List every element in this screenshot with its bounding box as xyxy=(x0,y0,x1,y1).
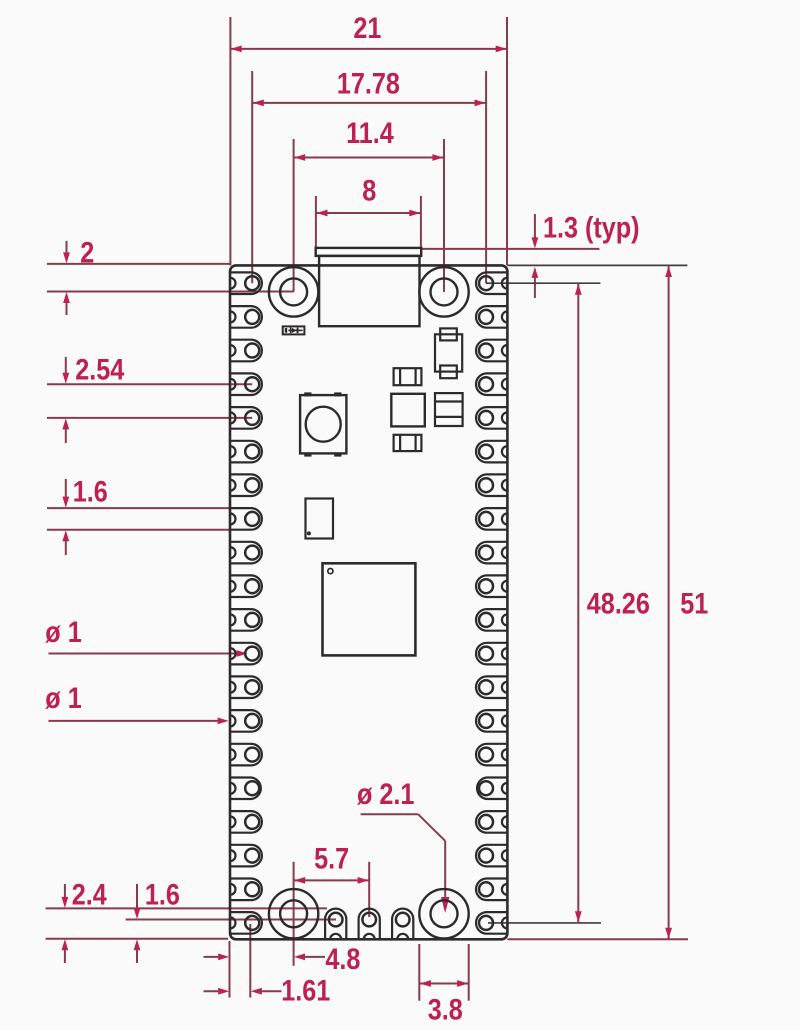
svg-text:1.6: 1.6 xyxy=(145,877,180,911)
svg-text:ø 1: ø 1 xyxy=(45,681,81,715)
svg-text:1.61: 1.61 xyxy=(281,973,330,1007)
svg-text:5.7: 5.7 xyxy=(314,841,349,875)
svg-text:8: 8 xyxy=(362,173,376,207)
svg-text:3.8: 3.8 xyxy=(428,992,463,1026)
svg-text:4.8: 4.8 xyxy=(325,942,360,976)
svg-text:2: 2 xyxy=(80,235,94,269)
svg-text:1.6: 1.6 xyxy=(73,474,108,508)
svg-text:ø 1: ø 1 xyxy=(45,615,81,649)
svg-text:17.78: 17.78 xyxy=(337,66,400,100)
svg-text:2.54: 2.54 xyxy=(75,352,125,386)
svg-text:2.4: 2.4 xyxy=(72,877,108,911)
svg-text:51: 51 xyxy=(680,586,708,620)
svg-text:48.26: 48.26 xyxy=(587,586,650,620)
svg-text:ø 2.1: ø 2.1 xyxy=(357,777,414,811)
svg-text:11.4: 11.4 xyxy=(346,116,394,150)
svg-text:1.3 (typ): 1.3 (typ) xyxy=(543,210,640,244)
svg-text:21: 21 xyxy=(353,11,381,45)
